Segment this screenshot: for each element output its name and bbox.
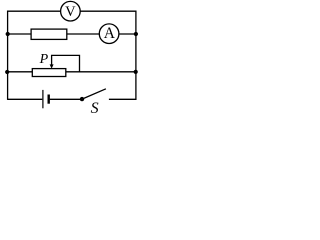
rheostat arrowhead — [50, 64, 54, 68]
junction node row3 left — [5, 70, 9, 74]
wire top left segment — [7, 10, 61, 12]
junction node row2 left — [6, 32, 10, 36]
wire row2 middle — [67, 33, 100, 35]
rheostat P slider arm — [52, 55, 80, 71]
switch pivot node — [80, 97, 84, 101]
wire battery to switch — [50, 98, 82, 100]
wire row3 left — [8, 71, 33, 73]
battery long plate — [42, 90, 44, 108]
ammeter A1 circle — [99, 24, 119, 44]
voltmeter V1 circle — [61, 1, 81, 21]
battery short plate — [48, 95, 50, 104]
wire left vertical — [7, 11, 9, 100]
wire bottom left — [8, 98, 43, 100]
junction node row3 right — [134, 70, 138, 74]
rheostat P box — [32, 69, 66, 77]
switch S lever — [82, 89, 106, 99]
svg-text:S: S — [91, 100, 99, 115]
svg-text:A: A — [104, 25, 116, 42]
wire row2 left — [8, 33, 32, 35]
wire top right segment — [80, 10, 136, 12]
resistor R1 — [31, 29, 67, 39]
wire row3 right — [66, 71, 136, 73]
wire row2 right — [119, 33, 136, 35]
wire switch to corner — [109, 98, 137, 100]
svg-text:P: P — [39, 52, 49, 67]
junction node row2 right — [134, 32, 138, 36]
svg-text:V: V — [65, 4, 76, 20]
wire right vertical — [135, 11, 137, 100]
